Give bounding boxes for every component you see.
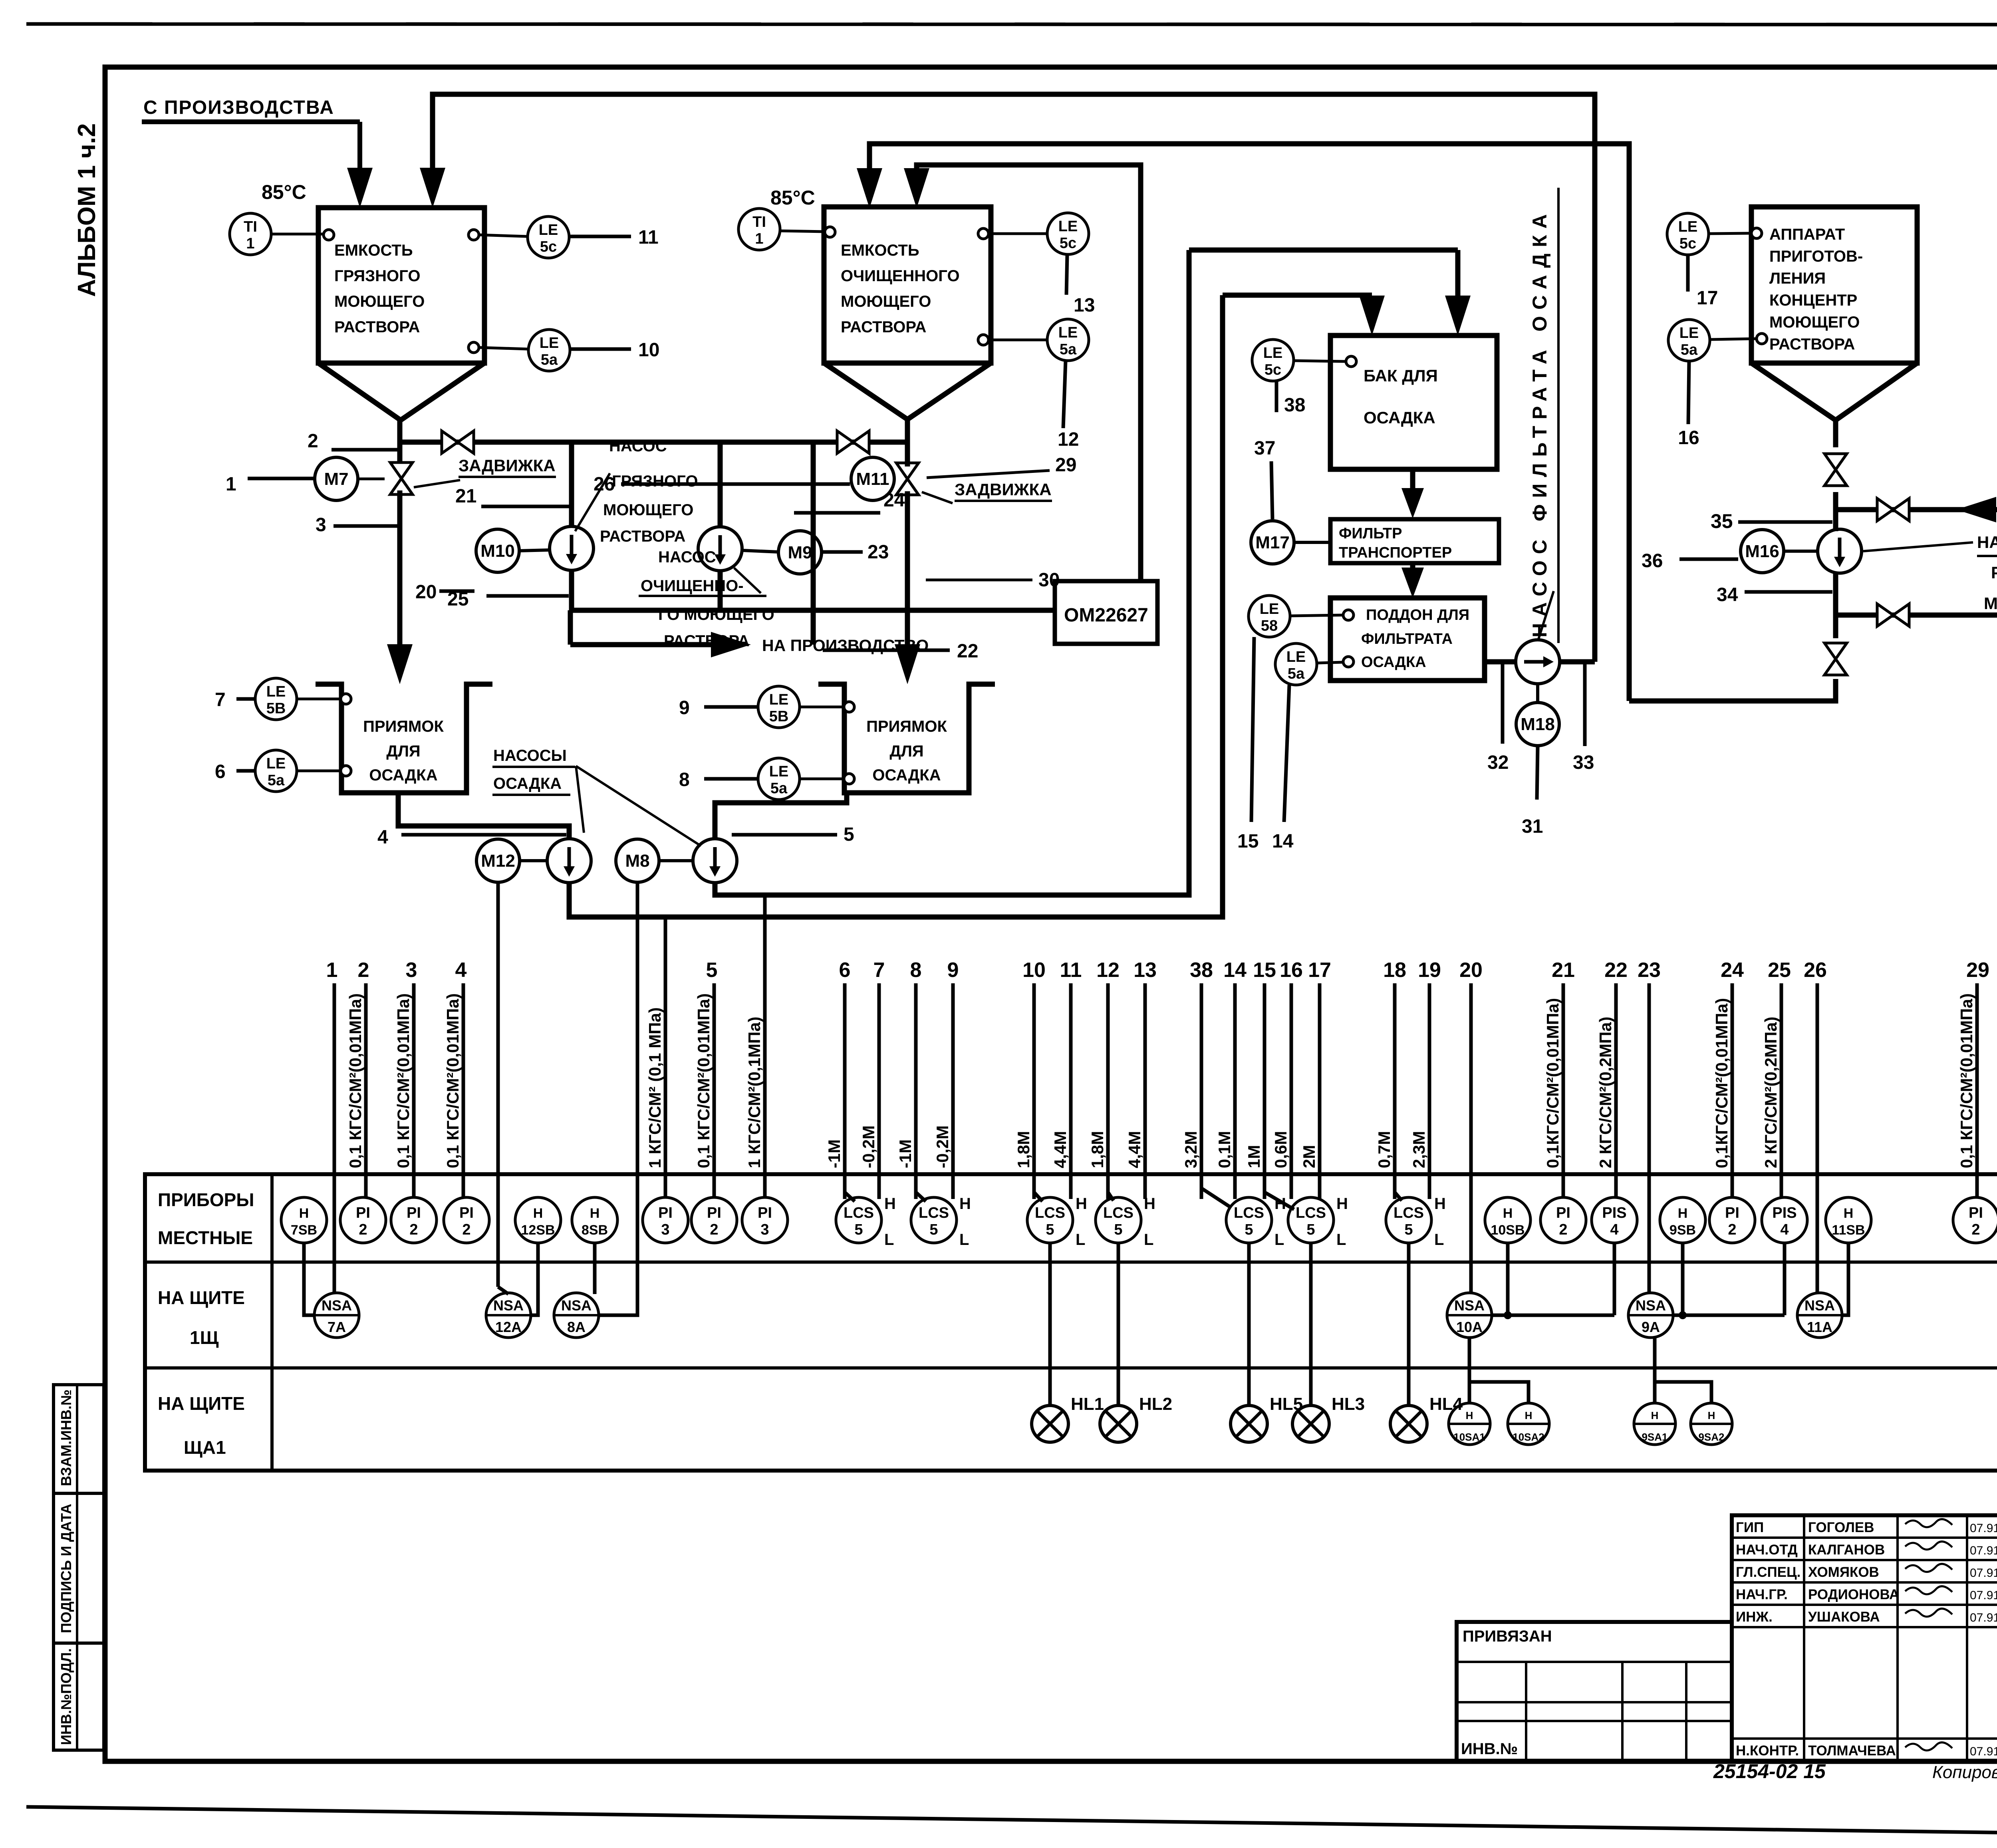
- title staff col line x4925: [1966, 1515, 1968, 1761]
- svg-text:9A: 9A: [1642, 1319, 1660, 1335]
- instrument LE 5c tank1: [528, 216, 569, 258]
- svg-text:2: 2: [308, 431, 318, 452]
- table row divider 2: [145, 1366, 1997, 1370]
- instrument LCS/5 row1: [911, 1197, 957, 1243]
- pipe pump1g suction riser: [569, 442, 574, 527]
- port pit2 lower: [844, 774, 854, 784]
- pipe B concentrate loop to tank2: [869, 144, 1629, 701]
- sheet outer top edge: [26, 24, 1997, 25]
- svg-text:H: H: [959, 1195, 971, 1213]
- svg-text:LCS: LCS: [1234, 1205, 1264, 1221]
- instrument PIS/4 row1: [1592, 1197, 1637, 1243]
- svg-text:PI: PI: [1725, 1205, 1739, 1221]
- valve V4 bottom: [1824, 643, 1847, 659]
- instrument LE 5c бак: [1252, 339, 1294, 381]
- svg-text:18: 18: [1383, 959, 1406, 982]
- svg-text:5a: 5a: [770, 780, 788, 797]
- svg-text:0,1 КГС/СМ²(0,01МПа): 0,1 КГС/СМ²(0,01МПа): [346, 993, 365, 1168]
- wire signal column x4046: [1614, 983, 1618, 1197]
- svg-text:-1М: -1М: [896, 1139, 915, 1168]
- svg-text:07.91: 07.91: [1970, 1566, 1997, 1580]
- leader насосы осадка 2: [576, 766, 701, 846]
- svg-text:H: H: [884, 1195, 896, 1213]
- svg-text:0,6М: 0,6М: [1271, 1131, 1290, 1168]
- sheet outer bottom edge: [26, 1807, 1997, 1840]
- wire signal column x4337: [1731, 983, 1734, 1197]
- svg-text:LCS: LCS: [844, 1205, 874, 1221]
- svg-text:07.91: 07.91: [1970, 1544, 1997, 1557]
- motor M18: [1516, 703, 1559, 746]
- arrow into tank T2 inlet 2: [904, 168, 929, 208]
- pipe tank3 drain 2: [1833, 492, 1838, 531]
- title привязан row lines: [1457, 1661, 1732, 1663]
- wire signal column x2386: [951, 983, 955, 1199]
- leader насос фильтрата: [1538, 591, 1554, 639]
- svg-text:4,4М: 4,4М: [1051, 1131, 1070, 1168]
- svg-text:0,1 КГС/СМ²(0,01МПа): 0,1 КГС/СМ²(0,01МПа): [694, 993, 713, 1168]
- pipe pump M16k discharge: [1833, 573, 1838, 638]
- svg-text:М10: М10: [480, 541, 515, 561]
- svg-text:МОЮЩЕГО: МОЮЩЕГО: [603, 501, 693, 519]
- title staff row line y4353: [1732, 1737, 1997, 1740]
- svg-text:ТI: ТI: [244, 218, 257, 235]
- wire LE5a tank3: [1710, 339, 1757, 339]
- wire LE5c t2 down 13: [1066, 254, 1067, 295]
- svg-text:5: 5: [844, 824, 854, 845]
- wire NSA10A to 10SA1: [1468, 1338, 1471, 1403]
- svg-text:H: H: [1434, 1195, 1446, 1213]
- pipe pump2o suction riser: [718, 442, 723, 527]
- svg-text:5c: 5c: [1265, 361, 1281, 378]
- pump насос фильтрата осадка M18: [1516, 640, 1560, 684]
- port бак: [1346, 356, 1356, 367]
- svg-text:РАСТВОРА: РАСТВОРА: [841, 318, 926, 336]
- svg-text:LE: LE: [769, 763, 789, 780]
- instrument LCS/5 row1: [836, 1197, 881, 1243]
- lamp HL4: [1390, 1405, 1427, 1442]
- svg-text:5: 5: [854, 1221, 863, 1238]
- svg-text:НАСОС КОНЦЕНТ-: НАСОС КОНЦЕНТ-: [1977, 533, 1997, 552]
- instrument PI/3 row1: [742, 1197, 788, 1243]
- svg-text:10SA1: 10SA1: [1453, 1431, 1485, 1443]
- svg-text:-0,2М: -0,2М: [933, 1125, 952, 1168]
- svg-text:НА ЩИТЕ: НА ЩИТЕ: [158, 1393, 245, 1414]
- svg-text:ГИП: ГИП: [1736, 1520, 1764, 1535]
- svg-text:НА ЩИТЕ: НА ЩИТЕ: [158, 1287, 245, 1308]
- svg-text:-0,2М: -0,2М: [859, 1125, 878, 1168]
- instrument LCS/5 row1: [1226, 1197, 1272, 1243]
- instrument Н/10SB row1: [1485, 1197, 1531, 1243]
- svg-text:22: 22: [1604, 959, 1628, 982]
- motor M12: [476, 839, 520, 882]
- wire M16 to pump: [1784, 550, 1818, 553]
- svg-text:1: 1: [246, 235, 254, 252]
- instrument PI/2 row1: [1709, 1197, 1755, 1243]
- instrument PI/3 row1: [643, 1197, 688, 1243]
- svg-text:2: 2: [710, 1221, 718, 1238]
- instrument LE 5c tank3: [1667, 213, 1709, 255]
- port pit2 upper: [844, 702, 854, 712]
- svg-text:35: 35: [1711, 510, 1733, 532]
- svg-text:4: 4: [1780, 1221, 1789, 1238]
- wire signal column x3233: [1290, 983, 1293, 1199]
- valve V3 loop: [1877, 604, 1893, 626]
- svg-text:0,1КГС/СМ²(0,01МПа): 0,1КГС/СМ²(0,01МПа): [1543, 998, 1562, 1168]
- svg-text:LE: LE: [266, 683, 286, 700]
- valve V2 crossover: [1877, 498, 1893, 521]
- wire signal column x1160: [462, 983, 465, 1197]
- wire M12 to pump: [520, 859, 547, 862]
- pipe concentrate crossover: [1836, 507, 1997, 512]
- arrow into pit2: [895, 644, 920, 684]
- svg-text:ПОДДОН ДЛЯ: ПОДДОН ДЛЯ: [1366, 607, 1469, 623]
- motor M11: [851, 457, 894, 500]
- svg-text:PIS: PIS: [1772, 1205, 1797, 1221]
- svg-text:ФИЛЬТРАТА: ФИЛЬТРАТА: [1361, 631, 1453, 647]
- instrument LCS/5 row1: [1288, 1197, 1334, 1243]
- svg-text:РАСТВОРА: РАСТВОРА: [334, 318, 420, 336]
- svg-text:3: 3: [661, 1221, 669, 1238]
- pit 2 приямок для осадка: [818, 684, 995, 793]
- svg-text:5B: 5B: [769, 708, 789, 725]
- svg-text:ИНВ.№: ИНВ.№: [1461, 1740, 1518, 1758]
- wire pump M18 discharge: [1560, 659, 1595, 665]
- svg-text:PIS: PIS: [1602, 1205, 1626, 1221]
- pump насос осадка 2: [693, 839, 737, 883]
- svg-text:24: 24: [1721, 959, 1744, 982]
- wire LCS drop to HL2: [1117, 1243, 1120, 1405]
- svg-text:NSA: NSA: [1804, 1297, 1835, 1314]
- signature РОДИОНОВА: [1905, 1586, 1952, 1594]
- svg-text:4: 4: [377, 827, 388, 848]
- port tank2 left: [825, 227, 835, 237]
- wire signal column x3492: [1393, 983, 1397, 1199]
- svg-text:36: 36: [1642, 550, 1663, 572]
- svg-text:LCS: LCS: [1035, 1205, 1065, 1221]
- instrument Н/12SB row1: [515, 1197, 561, 1243]
- wire col6 elbow: [845, 1192, 855, 1201]
- svg-text:16: 16: [1678, 427, 1699, 449]
- svg-text:11: 11: [638, 227, 659, 248]
- instrument LE 5a tank3: [1668, 320, 1710, 361]
- svg-text:8A: 8A: [567, 1319, 586, 1335]
- svg-text:ВЗАМ.ИНВ.№: ВЗАМ.ИНВ.№: [58, 1389, 74, 1486]
- pipe bypass tank2 to production: [811, 442, 816, 645]
- box фильтр транспортер: [1330, 519, 1499, 563]
- wire 14 drop: [1284, 685, 1289, 822]
- wire port to LE5c tank2: [989, 232, 1047, 235]
- wire TI1 to tank1: [271, 233, 324, 236]
- wire H9SB drop: [1681, 1243, 1685, 1315]
- title staff row line y3962: [1732, 1581, 1997, 1584]
- svg-text:NSA: NSA: [561, 1297, 592, 1314]
- svg-text:КОНЦЕНТР: КОНЦЕНТР: [1769, 292, 1857, 309]
- instrument LE 5a tank1: [528, 330, 570, 371]
- svg-text:NSA: NSA: [1636, 1297, 1666, 1314]
- motor M9: [778, 531, 822, 574]
- port tank2 right lower: [978, 335, 989, 345]
- svg-text:5: 5: [1404, 1221, 1413, 1238]
- svg-text:0,1 КГС/СМ²(0,01МПа): 0,1 КГС/СМ²(0,01МПа): [443, 993, 462, 1168]
- svg-text:L: L: [1076, 1231, 1085, 1249]
- svg-text:12: 12: [1096, 959, 1120, 982]
- tank T2 емкость очищенного моющего раствора: [824, 207, 991, 363]
- svg-text:20: 20: [1459, 959, 1483, 982]
- svg-text:LCS: LCS: [1296, 1205, 1326, 1221]
- svg-text:24: 24: [883, 490, 905, 511]
- svg-text:17: 17: [1308, 959, 1331, 982]
- svg-text:ЩА1: ЩА1: [184, 1437, 226, 1458]
- svg-text:ПРИЯМОК: ПРИЯМОК: [363, 718, 444, 735]
- pipe to production: [568, 610, 573, 645]
- svg-text:ОСАДКА: ОСАДКА: [493, 775, 562, 792]
- wire M10 to pump: [519, 550, 550, 551]
- wire LE5a поддон: [1317, 662, 1343, 663]
- wire port to LE5a tank2: [989, 339, 1047, 341]
- svg-text:5c: 5c: [540, 238, 557, 255]
- svg-text:L: L: [1274, 1231, 1284, 1249]
- svg-text:PI: PI: [1556, 1205, 1570, 1221]
- wire signal column 1666 from collector F: [664, 917, 667, 1197]
- svg-text:НАСОС: НАСОС: [609, 437, 667, 455]
- wire M17 to фильтр: [1294, 541, 1330, 544]
- svg-text:07.91: 07.91: [1970, 1745, 1997, 1758]
- port tank3 upper: [1751, 228, 1762, 238]
- svg-text:37: 37: [1254, 438, 1275, 459]
- svg-text:22: 22: [957, 641, 978, 662]
- wire LE5a pit2: [800, 778, 844, 780]
- svg-text:1: 1: [226, 474, 236, 495]
- wire M8 signal column: [599, 882, 637, 1315]
- wire LE5a pit1: [297, 770, 341, 772]
- wire NSA9A to 9SA1: [1653, 1338, 1657, 1403]
- svg-text:5a: 5a: [1288, 665, 1305, 682]
- svg-text:33: 33: [1573, 752, 1594, 773]
- svg-text:ГРЯЗНОГО: ГРЯЗНОГО: [334, 267, 420, 285]
- signature ХОМЯКОВ: [1905, 1564, 1952, 1572]
- instrument NSA/10A row2: [1447, 1293, 1492, 1338]
- title staff col line x4751: [1896, 1515, 1899, 1761]
- svg-text:ОСАДКА: ОСАДКА: [1364, 408, 1435, 427]
- instrument LE 5a tank2: [1047, 319, 1089, 361]
- wire NSA10A to 10SA2: [1469, 1382, 1529, 1403]
- svg-text:7: 7: [873, 959, 885, 982]
- svg-text:1: 1: [326, 959, 338, 982]
- svg-text:5c: 5c: [1060, 235, 1076, 252]
- svg-text:3: 3: [760, 1221, 769, 1238]
- svg-text:М17: М17: [1255, 533, 1290, 552]
- title staff col line x4517: [1803, 1515, 1805, 1761]
- svg-text:LCS: LCS: [1394, 1205, 1424, 1221]
- wire 17 drop: [1686, 255, 1690, 292]
- svg-text:МОЮЩЕГО: МОЮЩЕГО: [1769, 314, 1860, 331]
- svg-text:ЛЕНИЯ: ЛЕНИЯ: [1769, 270, 1826, 287]
- svg-text:26: 26: [1804, 959, 1827, 982]
- svg-text:М16: М16: [1745, 542, 1779, 561]
- svg-text:LE: LE: [1263, 345, 1283, 361]
- wire signal column x3579: [1428, 983, 1431, 1199]
- title staff row line y4074: [1732, 1626, 1997, 1628]
- svg-text:АЛЬБОМ 1 ч.2: АЛЬБОМ 1 ч.2: [73, 123, 101, 297]
- svg-text:5: 5: [1245, 1221, 1253, 1238]
- svg-text:L: L: [959, 1231, 969, 1249]
- motor M10: [476, 529, 519, 572]
- instrument Н/9SB row1: [1660, 1197, 1705, 1243]
- arrow into tank T1 inlet 1: [347, 168, 373, 208]
- svg-text:32: 32: [1487, 752, 1509, 773]
- wire H8SB to NSA8A: [593, 1243, 597, 1294]
- svg-text:21: 21: [1552, 959, 1575, 982]
- svg-text:2: 2: [1559, 1221, 1567, 1238]
- svg-text:14: 14: [1272, 831, 1294, 852]
- arrow бак to фильтр: [1410, 469, 1415, 492]
- svg-text:Н.КОНТР.: Н.КОНТР.: [1736, 1743, 1799, 1759]
- svg-text:ОСАДКА: ОСАДКА: [369, 766, 437, 784]
- svg-text:0,1М: 0,1М: [1215, 1131, 1234, 1168]
- svg-text:НАСОСЫ: НАСОСЫ: [493, 747, 567, 764]
- svg-text:1 КГС/СМ²(0,1МПа): 1 КГС/СМ²(0,1МПа): [745, 1016, 764, 1168]
- wire LE5c to 11: [569, 235, 631, 238]
- svg-text:H: H: [1076, 1195, 1087, 1213]
- arrow into бак right: [1455, 250, 1461, 304]
- arrow into pit1: [387, 644, 413, 684]
- svg-text:PI: PI: [356, 1205, 370, 1221]
- sidebar box ВЗАМ.ИНВ.№: [54, 1385, 104, 1493]
- svg-text:8: 8: [679, 769, 690, 790]
- pump насос грязного моющего раствора: [550, 526, 594, 570]
- tank T1 funnel: [318, 363, 484, 420]
- svg-text:PI: PI: [407, 1205, 421, 1221]
- valve gate V6 tank2 drain: [896, 463, 919, 479]
- wire signal column x837 to NSA: [333, 983, 336, 1293]
- title staff row line y4018: [1732, 1604, 1997, 1606]
- pipe tank1 riser upper: [397, 420, 403, 466]
- lamp HL3: [1292, 1405, 1329, 1442]
- svg-text:5: 5: [1046, 1221, 1054, 1238]
- wire signal column 1915 from collector G: [763, 895, 767, 1197]
- motor M17: [1251, 521, 1294, 564]
- svg-text:NSA: NSA: [1454, 1297, 1485, 1314]
- wire signal column x1788: [713, 983, 716, 1197]
- svg-text:1: 1: [755, 230, 763, 247]
- wire LE5a t2 down 12: [1063, 361, 1066, 428]
- wire col15 elbow to LCS6: [1265, 1192, 1294, 1209]
- svg-text:3,2М: 3,2М: [1181, 1131, 1200, 1168]
- pipe pump2o discharge: [718, 571, 723, 610]
- svg-text:11: 11: [1060, 959, 1082, 982]
- svg-text:LE: LE: [540, 335, 559, 351]
- svg-text:Н: Н: [1708, 1409, 1715, 1421]
- wire col12 elbow: [1108, 1192, 1114, 1201]
- port tank2 right upper: [978, 228, 989, 239]
- svg-text:PI: PI: [658, 1205, 673, 1221]
- wire LE5c бак down 38: [1275, 381, 1278, 412]
- pipe pump1g discharge: [569, 570, 574, 610]
- svg-text:9SA1: 9SA1: [1642, 1431, 1667, 1443]
- svg-text:ТРАНСПОРТЕР: ТРАНСПОРТЕР: [1339, 544, 1452, 561]
- wire signal column x4129 to NSA: [1648, 983, 1651, 1293]
- svg-text:12SB: 12SB: [521, 1223, 555, 1238]
- svg-text:5: 5: [1306, 1221, 1315, 1238]
- instrument LE 5a pit2: [758, 758, 800, 800]
- svg-text:25: 25: [1768, 959, 1791, 982]
- wire PIS4 drop 4468: [1783, 1243, 1787, 1315]
- svg-text:ОСАДКА: ОСАДКА: [1361, 654, 1426, 671]
- pipe pump1s discharge collector F: [569, 295, 1223, 917]
- box поддон для фильтрата осадка: [1330, 598, 1485, 681]
- instrument LCS/5 row1: [1096, 1197, 1141, 1243]
- svg-text:17: 17: [1697, 288, 1718, 309]
- signature УШАКОВА: [1905, 1609, 1952, 1617]
- svg-text:ПРИГОТОВ-: ПРИГОТОВ-: [1769, 248, 1863, 265]
- svg-text:2 КГС/СМ²(0,2МПа): 2 КГС/СМ²(0,2МПа): [1596, 1016, 1615, 1168]
- motor M7: [315, 457, 358, 500]
- svg-text:РИРОВАННОГО: РИРОВАННОГО: [1991, 563, 1997, 582]
- svg-text:7: 7: [215, 689, 226, 711]
- svg-text:12A: 12A: [495, 1319, 522, 1335]
- valve on interconnect right: [837, 431, 853, 453]
- pipe tank2 riser to pit2: [905, 491, 910, 655]
- svg-text:L: L: [884, 1231, 894, 1249]
- svg-text:5a: 5a: [1060, 341, 1077, 358]
- wire LE5B pit1: [297, 698, 341, 701]
- instrument LCS/5 row1: [1386, 1197, 1431, 1243]
- port поддон upper: [1343, 610, 1354, 620]
- svg-text:10A: 10A: [1456, 1319, 1483, 1335]
- svg-text:HL4: HL4: [1429, 1394, 1463, 1414]
- signature ТОЛМАЧЕВА: [1905, 1743, 1952, 1751]
- tank T3 funnel: [1751, 363, 1917, 420]
- tank T3 аппарат приготовления: [1751, 207, 1917, 363]
- wire LE5B pit2: [800, 706, 844, 709]
- wire signal column x3304: [1318, 983, 1322, 1199]
- wire NSA10A link: [1492, 1314, 1614, 1317]
- lamp HL2: [1100, 1405, 1137, 1442]
- svg-text:М9: М9: [788, 543, 812, 562]
- wire M12 signal column: [496, 882, 500, 1287]
- svg-text:ПРИВЯЗАН: ПРИВЯЗАН: [1463, 1628, 1552, 1645]
- svg-text:15: 15: [1253, 959, 1276, 982]
- svg-text:LE: LE: [1678, 218, 1698, 235]
- instrument NSA/8A row2: [554, 1293, 599, 1338]
- pump насос осадка 1: [547, 839, 591, 883]
- svg-text:07.91: 07.91: [1970, 1611, 1997, 1624]
- svg-text:12: 12: [1058, 429, 1079, 450]
- sidebar divider: [76, 1385, 78, 1750]
- svg-text:ГРЯЗНОГО: ГРЯЗНОГО: [612, 472, 698, 490]
- svg-text:LE: LE: [1260, 601, 1279, 617]
- wire LCS drop to HL3: [1309, 1243, 1313, 1405]
- instrument PI/2 row1: [391, 1197, 437, 1243]
- wire LCS drop to HL4: [1407, 1243, 1411, 1405]
- wire LE58 поддон: [1290, 615, 1343, 616]
- svg-text:10: 10: [1022, 959, 1046, 982]
- wire signal column x2867: [1143, 983, 1147, 1199]
- lamp HL1: [1032, 1405, 1068, 1442]
- pipe discharge manifold: [570, 608, 1055, 613]
- svg-text:25154-02 15: 25154-02 15: [1713, 1760, 1826, 1782]
- svg-text:8SB: 8SB: [582, 1223, 608, 1238]
- svg-text:МОЮЩЕГО: МОЮЩЕГО: [334, 293, 425, 310]
- svg-text:РОДИОНОВА: РОДИОНОВА: [1808, 1587, 1899, 1602]
- svg-text:PI: PI: [758, 1205, 772, 1221]
- wire H10SB drop: [1506, 1243, 1510, 1315]
- svg-text:5: 5: [706, 959, 718, 982]
- wire M7 to valve: [358, 478, 385, 480]
- svg-text:НАЧ.ОТД: НАЧ.ОТД: [1736, 1542, 1798, 1558]
- wire port to LE5c tank1: [479, 235, 528, 236]
- arrow into tank T2 inlet 1: [857, 168, 882, 208]
